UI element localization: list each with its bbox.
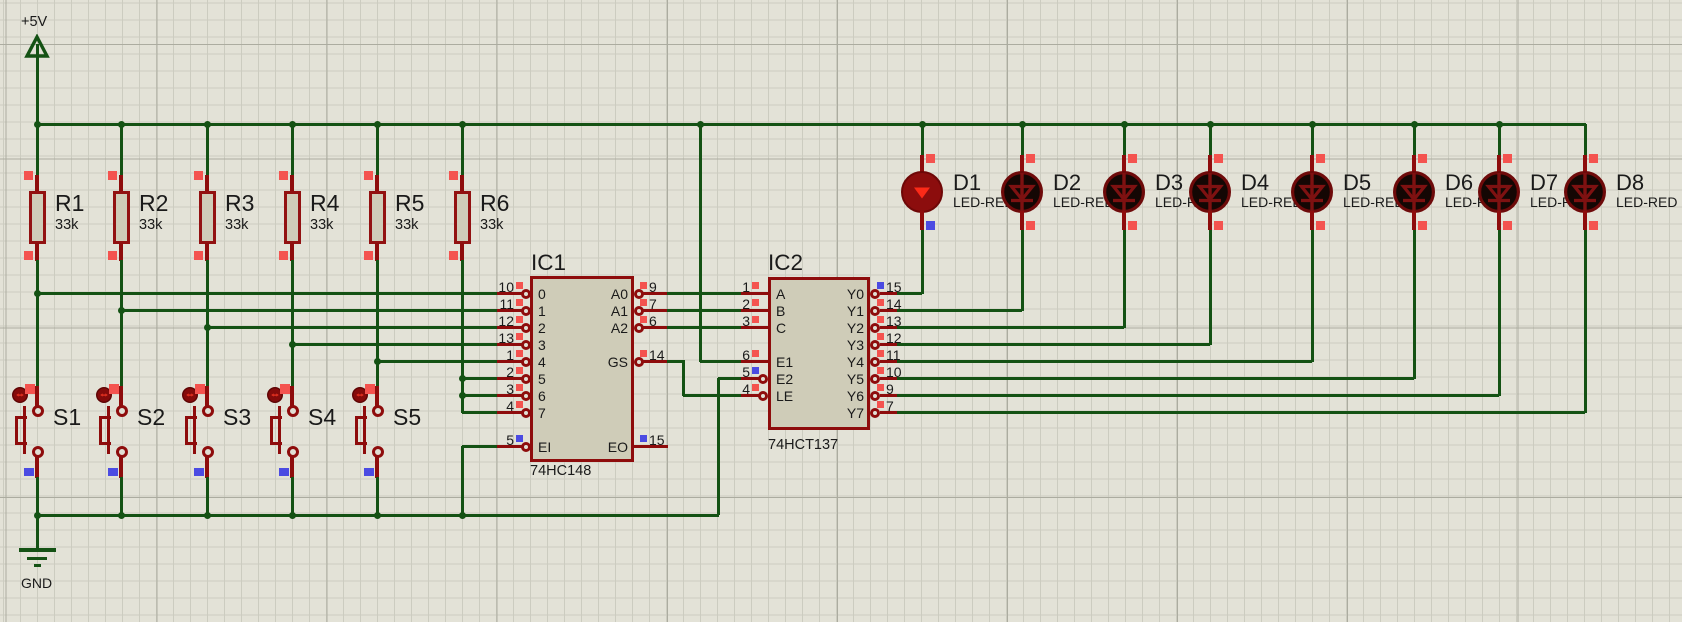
- LED D8 (LED-RED): [0, 0, 2, 2]
- wire S2 node to IC1 input 1: [121, 309, 497, 312]
- op-amp/IC U2: IC2 74HCT137 decoder: [0, 0, 1, 1]
- op-amp/IC U1: IC1 74HC148 priority encoder: [0, 0, 1, 1]
- wire IC1 EI to ground rail: [462, 445, 497, 448]
- LED D3 (LED-RED): [0, 0, 2, 2]
- wire Y5 to D6 cathode: [897, 377, 1414, 380]
- wire S4 node to IC1 input 3: [292, 343, 497, 346]
- resistor R6 33k: [0, 0, 1, 1]
- wire +5V to E1: [699, 124, 702, 362]
- ground: [0, 0, 1, 1]
- LED D2 (LED-RED): [0, 0, 2, 2]
- wire S5 node to IC1 input 4: [377, 360, 497, 363]
- switch S3 (push button): [0, 0, 1, 1]
- junction top rail / D2 branch: [1019, 121, 1026, 128]
- junction top rail / D4 branch: [1207, 121, 1214, 128]
- junction bottom rail / S2: [118, 512, 125, 519]
- junction bottom rail / S4: [289, 512, 296, 519]
- junction top rail / D6 branch: [1411, 121, 1418, 128]
- junction top rail / D3 branch: [1121, 121, 1128, 128]
- junction top rail / column 3: [204, 121, 211, 128]
- wire Y3 to D4 cathode: [897, 343, 1210, 346]
- wire R6 node to IC1 input 5: [462, 377, 497, 380]
- wire A0 to A: [667, 292, 741, 295]
- junction bottom rail / S3: [204, 512, 211, 519]
- switch S2 (push button): [0, 0, 1, 1]
- junction top rail / column 1: [34, 121, 41, 128]
- wire A2 to C: [667, 326, 741, 329]
- resistor R1 33k: [0, 0, 1, 1]
- wire S1 node to IC1 input 0: [37, 292, 497, 295]
- wire Y6 to D7 cathode: [897, 394, 1499, 397]
- junction top rail / column 2: [118, 121, 125, 128]
- wire S3 node to IC1 input 2: [207, 326, 497, 329]
- wire A1 to B: [667, 309, 741, 312]
- switch S1 (push button): [0, 0, 1, 1]
- LED D7 (LED-RED): [0, 0, 2, 2]
- wire ground bottom rail: [36, 514, 719, 517]
- wire GS to LE: [667, 360, 685, 363]
- junction top rail / D7 branch: [1496, 121, 1503, 128]
- switch S5 (push button): [0, 0, 1, 1]
- wire Y0 to D1 cathode: [897, 292, 922, 295]
- junction top rail / column 4: [289, 121, 296, 128]
- resistor R4 33k: [0, 0, 1, 1]
- LED D1 (LED-RED, lit): [0, 0, 1, 1]
- resistor R5 33k: [0, 0, 1, 1]
- LED D6 (LED-RED): [0, 0, 2, 2]
- power +5V label: [21, 15, 47, 31]
- LED D4 (LED-RED): [0, 0, 2, 2]
- junction top rail / D1 branch: [919, 121, 926, 128]
- wire +5V stem: [36, 44, 39, 124]
- wire R6 node to IC1 input 6: [462, 394, 497, 397]
- wire Y1 to D2 cathode: [897, 309, 1022, 312]
- resistor R3 33k: [0, 0, 1, 1]
- power +5V arrow symbol: [24, 34, 50, 60]
- junction bottom rail / S1: [34, 512, 41, 519]
- wire Y7 to D8 cathode: [897, 411, 1585, 414]
- wire Y4 to D5 cathode: [897, 360, 1312, 363]
- resistor R2 33k: [0, 0, 1, 1]
- junction top rail / D5 branch: [1309, 121, 1316, 128]
- LED D5 (LED-RED): [0, 0, 2, 2]
- junction bottom rail / S5: [374, 512, 381, 519]
- junction top rail / column 6: [459, 121, 466, 128]
- switch S4 (push button): [0, 0, 1, 1]
- wire R6 column down to pin7 row: [461, 260, 464, 413]
- junction top rail / E1 branch: [697, 121, 704, 128]
- wire E2 to ground rail: [718, 377, 741, 380]
- wire R6 node to IC1 input 7: [462, 411, 497, 414]
- junction top rail / column 5: [374, 121, 381, 128]
- wire +5V top rail: [36, 123, 1586, 126]
- wire Y2 to D3 cathode: [897, 326, 1124, 329]
